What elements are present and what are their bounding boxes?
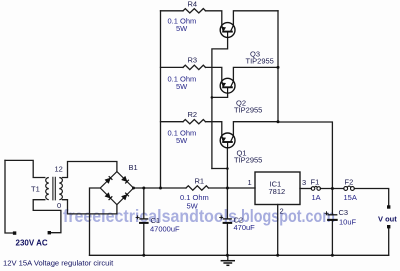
junction node Q2 collector rail (277, 66, 280, 69)
wire Q3 collector to right rail (233, 11, 278, 26)
wire secondary top lead to bridge (63, 162, 117, 178)
capacitor C1 lead top (143, 188, 145, 219)
svg-text:10uF: 10uF (339, 218, 357, 227)
bridge diode bottom-right (122, 195, 128, 201)
junction node C1 mid (142, 187, 145, 190)
wire IC1 pin3 to F1 (300, 188, 311, 190)
bridge rectifier B1 frame (100, 172, 133, 205)
wire R2 to Q1 emitter (206, 122, 222, 136)
svg-text:TIP2955: TIP2955 (234, 106, 262, 115)
capacitor C2 plates (223, 219, 233, 223)
junction node C2 mid (226, 187, 229, 190)
junction node C2 ground (226, 254, 229, 257)
svg-text:15A: 15A (344, 193, 357, 202)
wire Vout minus terminal down (388, 228, 390, 255)
svg-text:3: 3 (302, 178, 306, 187)
resistor R4 (183, 9, 206, 13)
wire secondary bottom lead to bridge (63, 200, 117, 214)
base bus to Q1 base (212, 168, 228, 170)
junction node bridge plus (132, 187, 135, 190)
terminal 230V AC left (13, 231, 16, 234)
fuse F2 (344, 186, 354, 190)
terminal V out minus (387, 225, 390, 228)
resistor R2 (183, 120, 206, 124)
svg-text:5W: 5W (176, 24, 188, 33)
fuse F1 (311, 186, 320, 190)
junction node output F1 F2 (331, 187, 334, 190)
base bus Q2 jog (212, 93, 228, 97)
wire R2 row left (161, 121, 184, 123)
transistor Q3 (220, 23, 235, 38)
wire bridge minus to ground (90, 188, 101, 255)
wire IC1 pin2 to ground (277, 205, 279, 256)
svg-text:F2: F2 (345, 178, 354, 187)
resistor R3 (183, 65, 206, 69)
bridge diode top-right (122, 176, 128, 181)
capacitor C3 plates (327, 215, 338, 220)
bridge diode bottom-left (105, 193, 111, 199)
terminal 230V AC right (48, 231, 51, 234)
svg-text:2: 2 (280, 207, 284, 216)
svg-text:B1: B1 (129, 163, 138, 172)
wire R1 to IC1 pin1 (209, 187, 256, 189)
junction node C3 ground (331, 254, 334, 257)
wire primary bottom lead (33, 200, 61, 233)
svg-text:F1: F1 (311, 178, 320, 187)
svg-text:5W: 5W (176, 136, 188, 145)
capacitor C1 plus (136, 215, 140, 219)
wire mid line bridge to R1 (134, 187, 187, 189)
svg-text:7812: 7812 (269, 187, 286, 196)
junction node base bus Q2 (211, 96, 214, 99)
capacitor C1 plates (139, 219, 149, 223)
svg-text:0: 0 (57, 201, 61, 210)
right collector rail (277, 11, 279, 122)
wire primary top lead (5, 160, 45, 177)
wire top row left (rail to R4) (161, 10, 184, 12)
transistor Q2 (220, 78, 235, 93)
wire rail jog to output junction (278, 122, 332, 189)
wire Q2 collector to right rail (233, 67, 278, 81)
transformer T1 primary coil (46, 178, 49, 200)
svg-text:1: 1 (248, 178, 252, 187)
svg-text:47000uF: 47000uF (150, 225, 180, 234)
ground symbol (221, 255, 235, 265)
transformer T1 core (53, 177, 55, 201)
IC1 7812 box (255, 172, 300, 205)
junction node C1 ground (142, 254, 145, 257)
svg-text:1A: 1A (312, 193, 321, 202)
left unregulated rail (160, 11, 162, 188)
resistor R1 (186, 186, 209, 190)
wire F2 to Vout corner (354, 189, 388, 206)
svg-text:V out: V out (378, 215, 397, 224)
capacitor C3 lead top (331, 189, 333, 215)
wire F1 to junction to F2 (320, 188, 343, 190)
svg-text:470uF: 470uF (234, 223, 256, 232)
wire R4 to Q3 emitter (206, 11, 222, 26)
wire mains left drop (5, 160, 13, 233)
bridge diode top-left (105, 176, 129, 200)
svg-text:T1: T1 (31, 185, 40, 194)
svg-text:C3: C3 (339, 208, 349, 217)
capacitor C2 lead bottom (226, 223, 228, 255)
transformer T1 secondary coil (59, 178, 62, 200)
svg-text:TIP2955: TIP2955 (234, 156, 262, 165)
svg-text:TIP2955: TIP2955 (246, 57, 274, 66)
transistor Q1 (220, 133, 235, 148)
wire Q1 collector to right rail (233, 122, 278, 136)
svg-text:5W: 5W (187, 202, 199, 211)
junction node left rail mid (159, 187, 162, 190)
terminal V out plus (387, 205, 390, 208)
junction node Q1 collector rail (277, 120, 280, 123)
svg-text:R4: R4 (188, 0, 198, 9)
svg-text:R2: R2 (188, 110, 198, 119)
capacitor C3 lead bottom (331, 220, 333, 255)
capacitor C3 plus (325, 211, 329, 215)
svg-text:R3: R3 (188, 56, 198, 65)
svg-text:12V 15A Voltage regulator circ: 12V 15A Voltage regulator circuit (3, 259, 114, 268)
ground line (90, 254, 389, 256)
capacitor C2 lead top (226, 188, 228, 219)
capacitor C2 plus (219, 215, 223, 219)
svg-text:R1: R1 (195, 177, 205, 186)
junction node pin2 ground (276, 254, 279, 257)
wire R3 row left (161, 66, 184, 68)
wire Q1 base to node (226, 148, 228, 188)
wire R3 to Q2 emitter (206, 67, 222, 81)
svg-text:230V AC: 230V AC (16, 239, 48, 248)
svg-text:12: 12 (55, 165, 63, 174)
base bus Q3 (212, 38, 228, 169)
capacitor C1 lead bottom (143, 223, 145, 255)
junction node base bus Q1 (226, 167, 229, 170)
svg-text:5W: 5W (176, 82, 188, 91)
